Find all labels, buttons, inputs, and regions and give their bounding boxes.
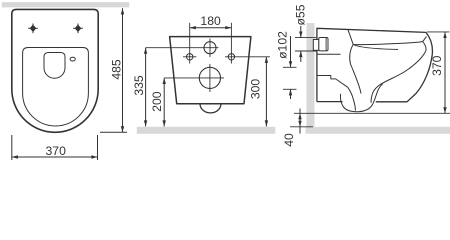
svg-text:370: 370 [430, 55, 444, 76]
mounting cross left [28, 24, 38, 34]
wall bar right [307, 23, 315, 127]
seat under line [353, 45, 398, 50]
floor bar middle [137, 127, 275, 134]
drain circle [199, 67, 220, 88]
dim 300 line [265, 57, 267, 127]
inlet circle [204, 42, 216, 54]
svg-text:335: 335 [132, 75, 146, 96]
svg-text:180: 180 [200, 14, 221, 28]
bowl front sweep [371, 42, 426, 103]
svg-text:40: 40 [282, 133, 296, 147]
dim 40 tick [290, 126, 313, 128]
svg-text:370: 370 [46, 144, 67, 158]
dim 370 top extension [427, 31, 450, 33]
dim 200 line [163, 78, 165, 127]
toilet inner outline (seat) [23, 48, 89, 126]
underside extension line [294, 112, 450, 114]
dim 370 right line [444, 32, 446, 113]
dim 40 line [299, 113, 301, 127]
dim o102 leader line [290, 36, 292, 67]
seat top line [353, 37, 426, 45]
dim 485 extension line bottom [100, 131, 127, 133]
mounting cross right [73, 24, 83, 34]
side outline [317, 28, 433, 102]
wall bar top [2, 2, 129, 7]
dim o55 ticks [295, 37, 318, 39]
dim o102 ticks [283, 66, 297, 68]
dim 180 line [190, 27, 232, 29]
floor bar right [306, 127, 450, 134]
trap U [340, 84, 382, 112]
dim o55 arrows [300, 26, 302, 38]
inlet stub tab [313, 40, 318, 51]
dim 335 line [145, 48, 147, 127]
water surface shape [44, 53, 65, 79]
svg-text:485: 485 [109, 59, 123, 80]
inlet crosshair [209, 39, 211, 58]
trap outlet bump [200, 104, 221, 113]
hole right [228, 54, 234, 60]
seat junction line [348, 30, 361, 94]
bracket step and trap inner diagonal [317, 76, 356, 111]
dim 370 extension lines [11, 135, 13, 160]
inlet stub [319, 38, 328, 51]
svg-text:ø102: ø102 [275, 31, 289, 59]
drain crosshair [209, 64, 211, 92]
dim 485 line [122, 8, 124, 132]
hole left [187, 54, 193, 60]
toilet outer outline [12, 9, 98, 132]
bracket top line [317, 53, 341, 55]
svg-text:300: 300 [248, 79, 262, 100]
dim 370 line [12, 156, 98, 158]
svg-text:200: 200 [150, 91, 164, 112]
bottom edge left segment [317, 101, 343, 103]
svg-text:ø55: ø55 [294, 4, 308, 25]
body trapezoid [170, 37, 251, 104]
small hole [70, 57, 75, 61]
